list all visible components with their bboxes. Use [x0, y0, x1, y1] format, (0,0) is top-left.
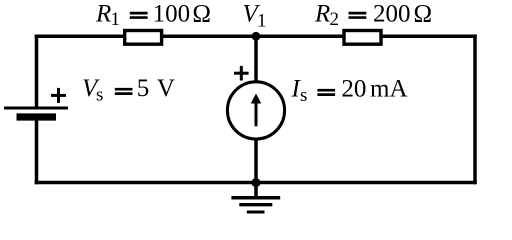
resistor R1 — [125, 31, 162, 45]
ground junction dot — [252, 178, 261, 187]
wire middle upper — [254, 35, 258, 86]
wire left lower — [35, 118, 39, 184]
current source arrowhead — [251, 94, 261, 104]
ground bar 1 — [231, 196, 280, 200]
current source arrow shaft — [255, 102, 258, 126]
label R2 equals sign — [349, 13, 367, 17]
wire top — [35, 35, 477, 39]
battery plus sign — [51, 88, 66, 103]
wire left upper — [35, 35, 39, 108]
wire bottom — [35, 181, 477, 185]
current source plus sign — [234, 66, 249, 81]
ground bar 3 — [247, 210, 265, 213]
ground stem — [254, 183, 258, 198]
resistor R2 — [344, 31, 381, 45]
battery Vs plate short thick — [17, 113, 57, 120]
label Vs equals sign — [115, 89, 133, 93]
label R1 equals sign — [130, 13, 148, 17]
wire middle lower — [254, 136, 258, 183]
label Is equals sign — [317, 90, 335, 94]
battery Vs plate long — [4, 107, 68, 110]
ground bar 2 — [239, 203, 272, 206]
node V1 junction dot — [252, 32, 261, 41]
current source Is circle — [227, 82, 284, 139]
wire right — [473, 35, 477, 185]
